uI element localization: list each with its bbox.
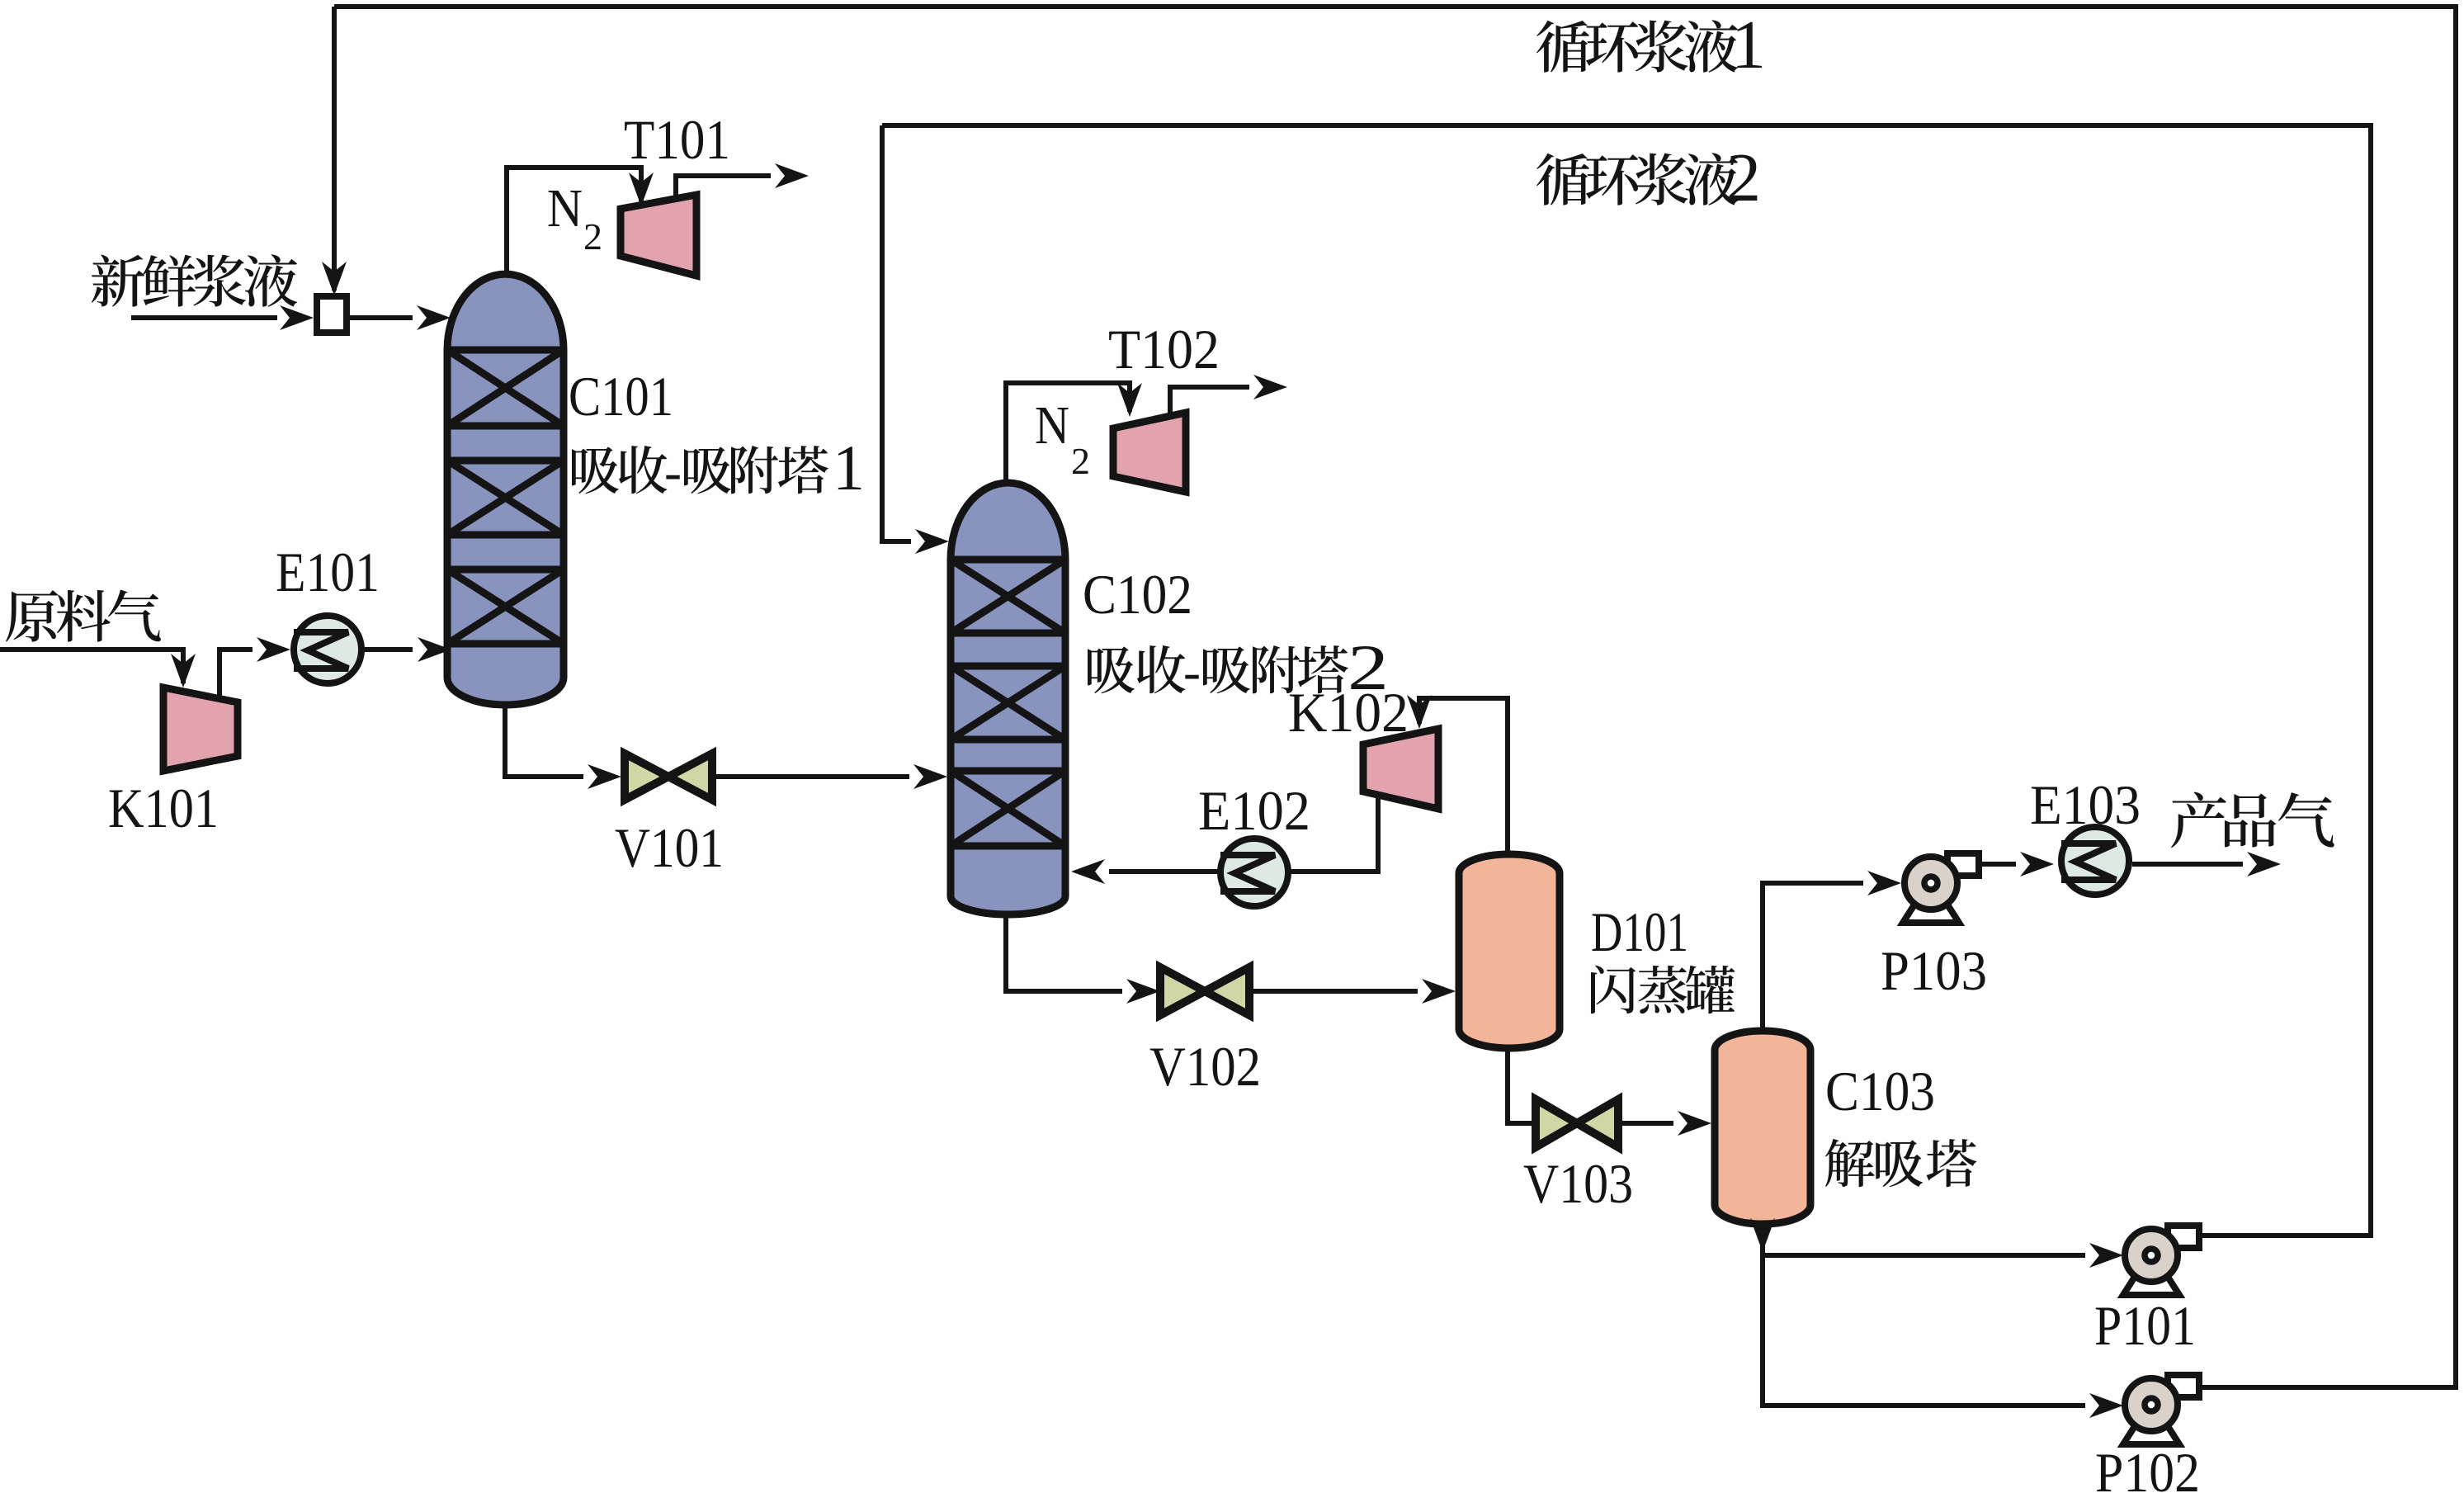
wire V103 to stripper C103 [1619,1121,1673,1126]
wire E102 to C102 (left arrow) [1109,869,1220,874]
svg-text:N: N [547,178,583,239]
pump P102 [2123,1375,2199,1444]
label flash drum 闪蒸罐 [1591,966,1735,1014]
svg-text:N: N [1035,395,1069,456]
mixer node (fresh + recycle slurry) [317,296,347,333]
wire branch to P101 [1763,1253,2085,1258]
vessel C103 desorption tower [1715,1031,1810,1224]
heat exchanger E101 [294,616,361,683]
arrow heads on flow wires [322,262,347,295]
wire riser from top line down to mixer [332,7,337,291]
wire recycle slurry 2 down into C102 [882,125,911,541]
svg-text:P102: P102 [2095,1441,2200,1504]
wire mixer to column C101 [347,315,413,320]
wire C101 bottoms to valve V101 [505,705,583,777]
wire K102 outlet down to E102 [1288,795,1378,872]
wire D101 overhead to compressor K102 [1419,698,1508,854]
wire fresh slurry feed into mixer [131,315,277,320]
turbine T102 [1113,413,1186,492]
svg-text:1: 1 [1731,7,1766,83]
wire C103 bottoms manifold [1763,1224,2085,1406]
heat exchanger E103 [2061,827,2129,895]
svg-text:K102: K102 [1288,681,1409,744]
wire T101 outlet [676,176,771,198]
valve V103 [1536,1099,1618,1147]
wire C101 overhead to turbine T101 [507,168,641,274]
wire D101 bottoms to valve V103 [1508,1048,1536,1123]
valve V102 [1160,967,1249,1015]
pump P103 [1903,853,1979,923]
svg-text:E102: E102 [1198,779,1310,842]
wire P103 outlet to E103 [1979,862,2016,867]
svg-text:2: 2 [1726,139,1761,216]
svg-text:V102: V102 [1149,1035,1261,1098]
svg-text:D101: D101 [1591,900,1688,963]
wire E103 to product gas [2132,862,2243,867]
column C101 shell [447,274,564,705]
svg-text:C103: C103 [1825,1060,1935,1122]
wire feed gas into K101 [0,650,183,683]
valve V101 [625,754,712,800]
svg-text:2: 2 [583,215,602,258]
svg-text:2: 2 [1071,440,1090,482]
heat exchanger E102 [1220,839,1288,906]
wire recycle slurry 2 line, right riser and P101 outlet [882,125,2371,1236]
wire V101 to C102 [713,774,909,779]
svg-text:K101: K101 [108,777,219,839]
pump P101 [2123,1226,2199,1295]
svg-text:1: 1 [833,432,865,503]
wire recycle slurry 1 top line, right riser and P102 outlet [334,7,2456,1387]
turbine T101 [621,195,696,276]
svg-text:V101: V101 [615,816,724,879]
wire V102 to flash drum D101 [1250,989,1418,994]
svg-text:-: - [1183,643,1201,701]
wire C102 bottoms to valve V102 [1006,914,1122,991]
wire C102 overhead to turbine T102 [1006,383,1130,483]
label recycle slurry 1 循环浆液1 [1536,20,1738,73]
svg-text:C101: C101 [569,365,673,428]
svg-text:P101: P101 [2094,1294,2196,1357]
label absorber 2 吸收-吸附塔2 [1088,645,1348,693]
compressor K102 [1363,729,1438,809]
svg-text:-: - [664,443,682,501]
svg-text:T101: T101 [624,108,730,171]
label fresh slurry 新鲜浆液 [92,254,297,307]
svg-text:E103: E103 [2030,773,2141,836]
wire K101 outlet to E101 [219,650,253,701]
svg-text:P103: P103 [1881,939,1987,1002]
svg-text:V103: V103 [1523,1152,1633,1215]
compressor K101 [163,687,238,771]
svg-text:C102: C102 [1083,563,1192,626]
label product gas 产品气 [2171,792,2334,848]
vessel D101 flash drum [1459,854,1560,1048]
label recycle slurry 2 循环浆液2 [1536,153,1738,206]
svg-text:E101: E101 [276,541,380,603]
svg-text:T102: T102 [1108,318,1220,380]
column C102 shell [951,483,1065,914]
label absorber 1 吸收-吸附塔1 [572,446,828,494]
wire C103 overhead to pump P103 [1763,883,1863,1031]
wire T102 outlet [1170,387,1249,414]
label stripper 解吸塔 [1825,1139,1976,1187]
label feed gas 原料气 [6,589,161,641]
wire E101 to C101 [361,647,413,652]
